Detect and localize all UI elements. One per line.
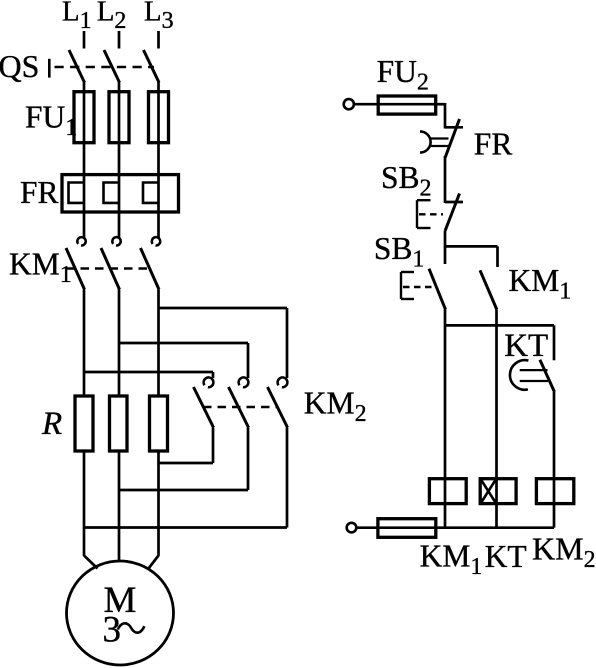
wire FR pole 3 to KM1 (157, 212, 160, 238)
svg-text:KM1: KM1 (420, 539, 483, 581)
svg-text:QS: QS (0, 48, 39, 84)
svg-text:SB1: SB1 (374, 231, 425, 273)
svg-text:R: R (41, 406, 62, 442)
switch QS linkage dashed line (55, 66, 155, 68)
contactor KM2 contact 1 terminal circle (204, 377, 214, 387)
pushbutton SB2 NC contact (445, 201, 463, 204)
contactor KM1 pole 2 terminal circle (112, 237, 120, 245)
coil KM1 (429, 479, 466, 504)
svg-text:FR: FR (20, 175, 59, 210)
wire KM2 middle contact down (247, 428, 250, 491)
switch QS handle tick (48, 59, 51, 78)
contactor KM1 pole 3 blade (141, 248, 160, 290)
wire phase2 to KM2 middle contact (119, 342, 248, 345)
wire SB1 to KM1 coil branch (444, 310, 447, 480)
wire L3 top stub (157, 31, 160, 49)
wire phase3 KM1 to R (157, 290, 160, 398)
thermal relay FR heater 1 (69, 183, 85, 203)
contactor KM1 pole 1 terminal circle (77, 237, 85, 245)
svg-text:KM2: KM2 (532, 531, 596, 574)
fuse FU2 (354, 103, 378, 106)
contactor KM2 contact 3 terminal circle (278, 377, 288, 387)
wire KT contact stub (553, 325, 556, 360)
control supply terminal bottom (347, 523, 357, 533)
contactor KM2 linkage dashed line (203, 406, 278, 408)
wire L2 top stub (118, 31, 121, 49)
svg-text:FU1: FU1 (25, 100, 77, 142)
wire junction SB1/KM1 top (445, 245, 498, 248)
svg-text:FR: FR (474, 127, 513, 162)
resistor R phase2 (110, 396, 128, 451)
wire KM1 aux down (495, 310, 498, 480)
svg-text:FU2: FU2 (377, 54, 429, 96)
wire phase2 KM1 to R (118, 290, 121, 398)
fuse FU1 pole 1 (74, 92, 94, 143)
wire KM2 left bypass to phase3 (159, 462, 214, 465)
time relay KT delayed NO contact (540, 360, 555, 392)
svg-text:L2: L2 (97, 0, 127, 34)
wire FU1 pole 3 to FR (157, 143, 160, 176)
coil KT (480, 479, 516, 504)
resistor R phase1 (75, 396, 93, 451)
wire bottom rail (436, 526, 554, 529)
motor M circle (67, 561, 174, 665)
wire SB2 to junction (444, 231, 447, 248)
svg-text:3: 3 (103, 610, 122, 651)
svg-text:KT: KT (485, 539, 527, 574)
contactor KM2 contact 1 blade (194, 387, 214, 428)
wire FR pole 2 to KM1 (118, 212, 121, 238)
wire FU2 to FR contact (444, 103, 447, 129)
wire KM2 middle bypass to phase2 (119, 489, 248, 492)
wire KM2 right bypass to phase1 (84, 526, 287, 529)
wire KT contact to KM2 coil (553, 392, 556, 480)
contactor KM1 linkage dashed line (66, 267, 150, 269)
contactor KM1 aux NO contact (480, 270, 497, 309)
wire FR to SB2 (444, 156, 447, 203)
svg-text:SB2: SB2 (381, 160, 432, 202)
wire KT coil to bottom rail (495, 504, 498, 528)
fuse FU1 pole 2 (109, 92, 129, 143)
contactor KM2 contact 3 blade (268, 387, 288, 428)
wire KM2 right contact down (286, 428, 289, 528)
contactor KM1 pole 2 blade (101, 248, 120, 290)
wire QS pole 1 to fuse (83, 82, 86, 94)
wire phase1 to KM2 left contact (84, 371, 213, 374)
wire FU1 pole 2 to FR (118, 143, 121, 176)
svg-text:L3: L3 (144, 0, 174, 34)
switch QS pole 1 blade (69, 50, 85, 83)
thermal relay FR box (62, 175, 179, 212)
svg-text:KT: KT (504, 328, 548, 364)
fuse FU1 pole 3 (149, 92, 169, 143)
svg-text:L1: L1 (62, 0, 92, 34)
contactor KM2 contact 2 terminal circle (239, 377, 249, 387)
wire L1 top stub (83, 31, 86, 49)
contactor KM1 pole 1 blade (66, 248, 85, 290)
switch QS pole 3 blade (144, 50, 160, 83)
svg-text:KM1: KM1 (509, 263, 572, 305)
svg-text:KM1: KM1 (9, 246, 72, 288)
wire QS pole 2 to fuse (118, 82, 121, 94)
wire FR pole 1 to KM1 (83, 212, 86, 238)
wire phase2 R to motor (118, 451, 121, 562)
thermal relay FR heater 3 (143, 183, 159, 203)
fuse FU2 bottom pole (357, 526, 379, 529)
control supply terminal top (344, 99, 354, 109)
wire FU1 pole 1 to FR (83, 143, 86, 176)
wire KM2 coil to bottom rail (553, 504, 556, 528)
wire phase1 KM1 to R (83, 290, 86, 398)
contactor KM2 contact 2 blade (229, 387, 249, 428)
svg-text:KM2: KM2 (304, 385, 367, 427)
thermal relay FR heater 2 (104, 183, 120, 203)
wire phase1 R to motor (83, 451, 86, 556)
wire phase3 to KM2 right contact (159, 307, 288, 310)
switch QS pole 2 blade (104, 50, 120, 83)
wire junction below SB1 (445, 324, 554, 327)
wire phase3 R to motor (157, 451, 160, 556)
wire QS pole 3 to fuse (157, 82, 160, 94)
coil KM2 (536, 479, 573, 504)
contactor KM1 pole 3 terminal circle (152, 237, 160, 245)
wire KM1 coil to bottom rail (444, 504, 447, 528)
resistor R phase3 (150, 396, 168, 451)
wire KM2 left contact down (212, 428, 215, 464)
pushbutton SB1 NO contact (444, 246, 447, 264)
thermal relay FR NC contact (445, 126, 463, 129)
